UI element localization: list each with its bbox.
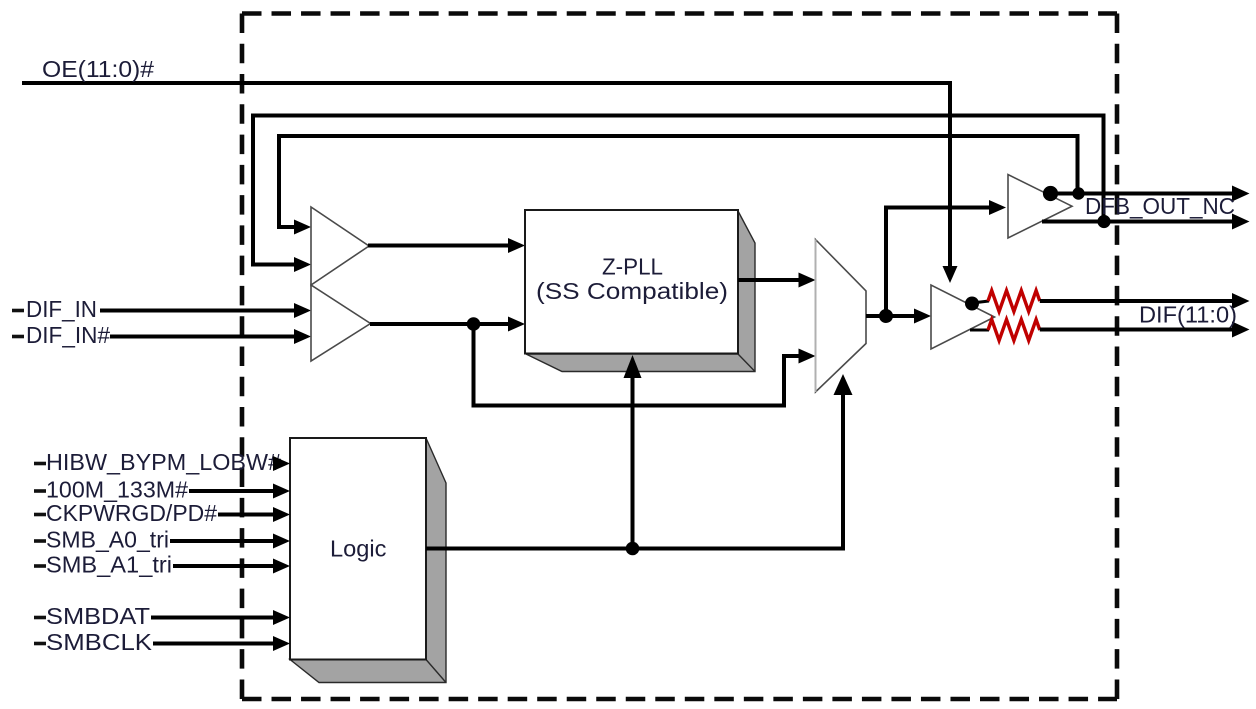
node on buffer edge [965,297,979,311]
wire DIF true out [1040,299,1234,303]
node J5 [1097,215,1110,228]
svg-text:DIF_IN#: DIF_IN# [26,322,110,348]
label 100M_133M# [34,489,46,493]
chip boundary (dashed border) [242,11,1117,16]
wire OE(11:0)# [22,83,950,267]
svg-text:SMB_A0_tri: SMB_A0_tri [46,527,169,553]
svg-text:(SS Compatible): (SS Compatible) [536,278,728,304]
resistor R2 (series, red) [988,320,1040,341]
arrow into DIF buffer (OE) [943,266,958,283]
Logic block U2 shadow [290,438,446,683]
wire buffer A out to Z-PLL [368,244,510,248]
wire buffer B out to Z-PLL [370,322,510,326]
svg-text:SMBDAT: SMBDAT [46,603,150,629]
svg-text:CKPWRGD/PD#: CKPWRGD/PD# [46,500,217,526]
node J2 [879,309,893,323]
svg-text:100M_133M#: 100M_133M# [46,477,188,503]
label CKPWRGD/PD# [34,513,46,517]
wire DIF_IN [100,309,296,313]
svg-text:SMB_A1_tri: SMB_A1_tri [46,552,172,578]
label DIF_IN [12,309,24,313]
svg-text:DIF_IN: DIF_IN [26,296,97,322]
Z-PLL box U1 [525,210,738,354]
DFB output buffer B2 [1008,175,1072,239]
svg-text:Logic: Logic [330,536,387,562]
arrow into mux select [834,374,853,395]
svg-text:SMBCLK: SMBCLK [46,629,153,655]
svg-text:DFB_OUT_NC: DFB_OUT_NC [1085,193,1235,219]
wire mux out [866,314,917,318]
wire logic out [426,393,843,549]
arrow into input buffer A lower [294,257,311,272]
wire DFB true out [1048,192,1234,196]
node J4 [1072,187,1084,199]
wire stub to resistor R1 [972,301,989,303]
node J3 [626,542,640,556]
wire feedback inner (net FBCLK2) [279,136,1078,227]
wire stub to resistor R2 [970,329,989,332]
label SMB_A0_tri [34,539,46,543]
svg-text:DIF(11:0): DIF(11:0) [1139,302,1237,328]
label SMBDAT [34,616,46,620]
mux M1 [816,240,867,393]
wire ref path to mux lower input [474,324,801,406]
wire Z-PLL out to mux [738,278,800,282]
resistor R1 (series, red) [988,291,1040,312]
node J1 [467,317,481,331]
Z-PLL U1 shadow [526,211,755,372]
node on DFB buffer edge [1043,186,1058,201]
wire DIF_IN# [110,335,296,339]
Logic box U2 [290,438,426,660]
input buffer A (feedback) [311,207,369,285]
label DIF_IN# [12,335,24,339]
wire DIF comp out [1040,328,1234,332]
arrow into input buffer A upper [294,220,311,235]
label SMBCLK [34,642,46,646]
label HIBW_BYPM_LOBW# [34,462,46,466]
svg-text:HIBW_BYPM_LOBW#: HIBW_BYPM_LOBW# [46,449,281,475]
wire mux out to DFB buffer [886,208,990,317]
wire logic to Z-PLL control [631,376,635,549]
wire OE feedback outer (net FBCLK1) [253,116,1104,265]
svg-text:Z-PLL: Z-PLL [602,254,663,280]
input buffer B (DIF_IN) [311,285,371,361]
label SMB_A1_tri [34,564,46,568]
wire DFB comp out [1042,220,1234,224]
DIF output buffer B1 [931,285,995,349]
svg-text:OE(11:0)#: OE(11:0)# [42,56,154,82]
